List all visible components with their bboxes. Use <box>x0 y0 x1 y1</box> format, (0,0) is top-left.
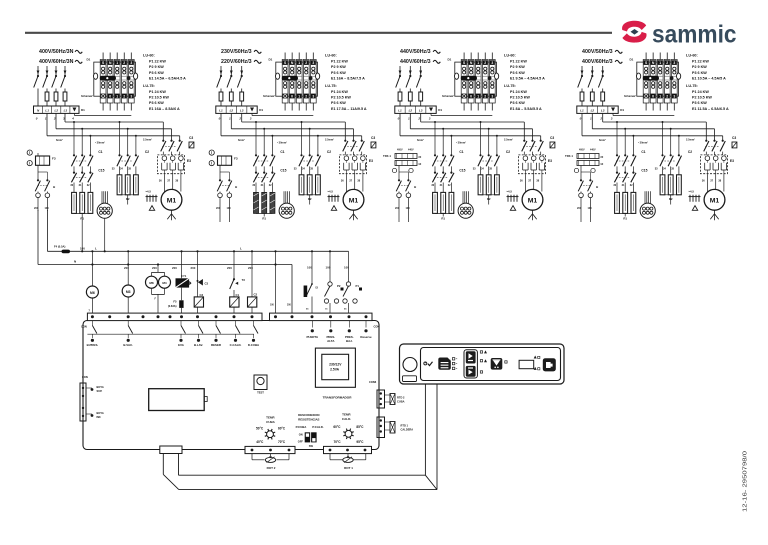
svg-text:L2: L2 <box>230 109 234 113</box>
svg-text:C2: C2 <box>327 150 331 154</box>
svg-text:C1: C1 <box>459 150 463 154</box>
svg-text:L: L <box>95 246 97 250</box>
svg-text:CON6: CON6 <box>369 380 377 384</box>
svg-text:D1: D1 <box>269 58 273 62</box>
svg-text:200: 200 <box>124 266 129 270</box>
svg-text:C2: C2 <box>506 150 510 154</box>
svg-text:1: 1 <box>477 95 479 99</box>
svg-text:LU-60:: LU-60: <box>143 54 155 58</box>
svg-text:R1: R1 <box>441 217 445 221</box>
svg-text:2.5mm²: 2.5mm² <box>504 138 513 142</box>
svg-text:P2 9 KW: P2 9 KW <box>692 65 707 69</box>
svg-text:100: 100 <box>326 266 331 270</box>
svg-text:LU-75:: LU-75: <box>325 84 337 88</box>
svg-text:2: 2 <box>305 95 307 99</box>
svg-text:sammic: sammic <box>652 20 737 48</box>
svg-text:CALD.: CALD. <box>342 417 351 421</box>
svg-text:P2 10.5 KW: P2 10.5 KW <box>331 96 351 100</box>
svg-text:100: 100 <box>344 266 349 270</box>
svg-text:2: 2 <box>666 61 668 65</box>
svg-text:100: 100 <box>406 207 411 210</box>
svg-text:Schema2: Schema2 <box>442 94 454 98</box>
svg-text:• 30mm²: • 30mm² <box>95 141 105 145</box>
svg-text:CALDERA: CALDERA <box>401 428 414 432</box>
svg-text:P2 9 KW: P2 9 KW <box>149 65 164 69</box>
svg-text:400V/60Hz/3: 400V/60Hz/3 <box>582 59 613 65</box>
svg-text:≈4.5: ≈4.5 <box>507 190 513 194</box>
svg-text:85°C: 85°C <box>356 425 364 429</box>
svg-text:F5: F5 <box>173 300 177 304</box>
svg-text:2.5VA: 2.5VA <box>330 368 340 372</box>
svg-text:220V/60Hz/3: 220V/60Hz/3 <box>221 59 252 65</box>
svg-text:C2: C2 <box>145 150 149 154</box>
svg-text:TRANSFORMADOR: TRANSFORMADOR <box>323 396 353 400</box>
svg-text:F4 (0.5A): F4 (0.5A) <box>54 245 65 249</box>
svg-text:0: 0 <box>470 95 472 99</box>
svg-text:C3: C3 <box>189 136 193 140</box>
svg-text:(0.63A): (0.63A) <box>168 304 177 308</box>
svg-text:E1 14.5A – 6.5A/4.5 A: E1 14.5A – 6.5A/4.5 A <box>149 76 186 80</box>
svg-text:≈4.5: ≈4.5 <box>328 190 334 194</box>
svg-text:D1: D1 <box>448 58 452 62</box>
svg-text:Schema2: Schema2 <box>624 94 636 98</box>
svg-text:P2 9 KW: P2 9 KW <box>510 65 525 69</box>
svg-text:C3: C3 <box>371 136 375 140</box>
svg-text:RESER: RESER <box>211 343 222 347</box>
svg-text:D1: D1 <box>81 108 85 112</box>
svg-text:3: 3 <box>312 95 314 99</box>
svg-text:P1 22 KW: P1 22 KW <box>331 60 348 64</box>
svg-text:3: 3 <box>130 61 132 65</box>
svg-text:P1 24 KW: P1 24 KW <box>331 90 348 94</box>
svg-text:C3: C3 <box>550 136 554 140</box>
svg-text:230/12V: 230/12V <box>329 363 342 367</box>
svg-text:P3 6 KW: P3 6 KW <box>331 71 346 75</box>
svg-text:50°C: 50°C <box>256 426 264 430</box>
svg-text:6mm²: 6mm² <box>56 138 63 142</box>
svg-text:1: 1 <box>116 61 118 65</box>
svg-text:2: 2 <box>123 95 125 99</box>
svg-text:C3: C3 <box>205 282 209 286</box>
svg-text:D1: D1 <box>438 108 442 112</box>
svg-text:E1 16A – 8.5A/6 A: E1 16A – 8.5A/6 A <box>149 107 180 111</box>
svg-text:L1: L1 <box>219 109 223 113</box>
svg-text:LU-75:: LU-75: <box>143 84 155 88</box>
svg-text:200: 200 <box>172 266 177 270</box>
svg-text:95°C: 95°C <box>356 440 364 444</box>
svg-text:E3: E3 <box>548 159 552 163</box>
svg-text:200: 200 <box>227 266 232 270</box>
svg-text:1: 1 <box>298 95 300 99</box>
svg-text:M8: M8 <box>149 281 154 285</box>
svg-text:2: 2 <box>484 95 486 99</box>
svg-text:E1 10.5A – 4.5A/5 A: E1 10.5A – 4.5A/5 A <box>692 76 726 80</box>
svg-text:4: 4 <box>71 117 74 121</box>
svg-text:E1 11.5A – 6.5A/6.5 A: E1 11.5A – 6.5A/6.5 A <box>692 107 729 111</box>
svg-text:2.5mm²: 2.5mm² <box>686 138 695 142</box>
svg-text:200: 200 <box>248 266 253 270</box>
svg-text:ROT 2: ROT 2 <box>267 466 276 470</box>
svg-text:6mm²: 6mm² <box>238 138 245 142</box>
svg-text:Schema2: Schema2 <box>81 94 93 98</box>
svg-text:R1: R1 <box>262 217 266 221</box>
svg-text:70°C: 70°C <box>333 440 341 444</box>
svg-text:3: 3 <box>130 95 132 99</box>
svg-text:LU-75:: LU-75: <box>504 84 516 88</box>
svg-text:D1: D1 <box>259 108 263 112</box>
svg-text:M1: M1 <box>167 198 177 205</box>
svg-text:2: 2 <box>599 117 602 121</box>
svg-text:E3: E3 <box>369 159 373 163</box>
svg-text:C1: C1 <box>98 150 102 154</box>
svg-text:P.CALD.: P.CALD. <box>312 425 323 429</box>
svg-text:12-16- 2950798/0: 12-16- 2950798/0 <box>743 451 749 512</box>
svg-text:L3: L3 <box>601 109 605 113</box>
svg-text:C1: C1 <box>280 150 284 154</box>
svg-text:C15: C15 <box>280 169 286 173</box>
svg-text:PUERTA: PUERTA <box>306 335 319 339</box>
svg-text:N: N <box>74 260 76 264</box>
svg-text:F3: F3 <box>52 157 56 161</box>
svg-text:2: 2 <box>53 117 56 121</box>
svg-text:TRF-1: TRF-1 <box>565 154 573 158</box>
svg-text:• 30mm²: • 30mm² <box>277 141 287 145</box>
svg-text:E3: E3 <box>187 159 191 163</box>
svg-text:Reserve: Reserve <box>360 335 372 339</box>
svg-text:C1: C1 <box>236 293 240 297</box>
svg-text:100: 100 <box>80 246 85 250</box>
svg-text:SUP.: SUP. <box>97 389 103 393</box>
svg-text:C1: C1 <box>641 150 645 154</box>
svg-text:L2: L2 <box>54 109 58 113</box>
svg-text:L2: L2 <box>409 109 413 113</box>
svg-text:M1: M1 <box>528 198 538 205</box>
svg-text:D1: D1 <box>630 58 634 62</box>
svg-text:2: 2 <box>666 95 668 99</box>
svg-text:T3: T3 <box>242 278 246 282</box>
svg-text:M6: M6 <box>90 291 95 295</box>
svg-text:OFF: OFF <box>298 439 304 443</box>
svg-text:C2: C2 <box>688 150 692 154</box>
svg-text:ROT 1: ROT 1 <box>344 466 353 470</box>
svg-text:P3 6 KW: P3 6 KW <box>149 101 164 105</box>
svg-text:E1 9.5A – 4.5A/4.5 A: E1 9.5A – 4.5A/4.5 A <box>510 76 545 80</box>
svg-text:L1: L1 <box>398 109 402 113</box>
svg-text:3: 3 <box>673 95 675 99</box>
svg-text:C.CALD.: C.CALD. <box>230 343 242 347</box>
svg-text:LU-75:: LU-75: <box>686 84 698 88</box>
svg-text:RESISTENCIAS: RESISTENCIAS <box>298 418 319 422</box>
svg-text:0: 0 <box>109 95 111 99</box>
svg-text:P2 10.5 KW: P2 10.5 KW <box>692 96 712 100</box>
svg-text:TRF-1: TRF-1 <box>383 154 391 158</box>
svg-text:SW: SW <box>309 444 314 448</box>
svg-text:M4: M4 <box>162 281 167 285</box>
svg-text:400V/50Hz/3N: 400V/50Hz/3N <box>39 49 74 55</box>
svg-text:440V: 440V <box>408 149 414 152</box>
svg-text:P1 24 KW: P1 24 KW <box>510 90 527 94</box>
svg-text:D1: D1 <box>620 108 624 112</box>
svg-text:200: 200 <box>152 266 157 270</box>
svg-text:• 30mm²: • 30mm² <box>456 141 466 145</box>
svg-text:P2: P2 <box>337 284 341 288</box>
svg-text:60°C: 60°C <box>333 425 341 429</box>
svg-text:400V: 400V <box>579 149 585 152</box>
svg-text:2: 2 <box>123 61 125 65</box>
svg-text:L1: L1 <box>580 109 584 113</box>
svg-text:CUBA: CUBA <box>397 400 405 404</box>
svg-text:LU-60:: LU-60: <box>325 54 337 58</box>
svg-text:60°C: 60°C <box>278 426 286 430</box>
svg-text:TEST: TEST <box>257 391 264 395</box>
svg-text:230V/50Hz/3: 230V/50Hz/3 <box>221 49 252 55</box>
svg-text:E3: E3 <box>730 159 734 163</box>
svg-text:M1: M1 <box>710 198 720 205</box>
svg-text:B.VAC.: B.VAC. <box>123 343 133 347</box>
svg-text:440V/50Hz/3: 440V/50Hz/3 <box>400 49 431 55</box>
svg-text:CON: CON <box>81 325 87 329</box>
svg-text:C15: C15 <box>459 169 465 173</box>
svg-text:Schema2: Schema2 <box>263 94 275 98</box>
svg-text:E1 16A – 8.5A/7.5 A: E1 16A – 8.5A/7.5 A <box>331 76 365 80</box>
svg-text:BAJ.: BAJ. <box>346 339 353 343</box>
svg-text:1: 1 <box>116 95 118 99</box>
svg-text:M1: M1 <box>349 198 359 205</box>
svg-text:CON: CON <box>374 325 380 329</box>
svg-text:≈4.5: ≈4.5 <box>689 190 695 194</box>
svg-text:P3 6 KW: P3 6 KW <box>149 71 164 75</box>
svg-text:BOYA: BOYA <box>97 385 104 389</box>
svg-text:1: 1 <box>477 61 479 65</box>
svg-text:3: 3 <box>673 61 675 65</box>
svg-text:P1 22 KW: P1 22 KW <box>149 60 166 64</box>
svg-text:P2 10.5 KW: P2 10.5 KW <box>510 96 530 100</box>
svg-text:RTD 1: RTD 1 <box>401 424 409 428</box>
svg-text:P3 6 KW: P3 6 KW <box>692 71 707 75</box>
svg-text:L: L <box>240 246 242 250</box>
svg-text:DESCONEXION: DESCONEXION <box>298 413 319 417</box>
svg-text:CUBA: CUBA <box>266 420 275 424</box>
svg-text:0: 0 <box>652 95 654 99</box>
svg-text:ALTA: ALTA <box>327 339 335 343</box>
svg-text:70°C: 70°C <box>278 440 286 444</box>
svg-text:2: 2 <box>417 117 420 121</box>
svg-text:2: 2 <box>305 61 307 65</box>
svg-text:P3 6 KW: P3 6 KW <box>510 101 525 105</box>
svg-text:F3: F3 <box>234 157 238 161</box>
svg-text:2: 2 <box>484 61 486 65</box>
svg-text:R1: R1 <box>623 217 627 221</box>
svg-text:C15: C15 <box>641 169 647 173</box>
svg-text:P2 10.5 KW: P2 10.5 KW <box>149 96 169 100</box>
svg-text:P3 6 KW: P3 6 KW <box>510 71 525 75</box>
svg-text:INF.: INF. <box>97 415 102 419</box>
svg-text:D1: D1 <box>87 58 91 62</box>
svg-text:L3: L3 <box>419 109 423 113</box>
svg-text:P1 22 KW: P1 22 KW <box>692 60 709 64</box>
svg-text:C3: C3 <box>732 136 736 140</box>
svg-text:RTD 2: RTD 2 <box>397 396 405 400</box>
svg-text:BOYA: BOYA <box>97 411 104 415</box>
svg-text:• 30mm²: • 30mm² <box>638 141 648 145</box>
svg-text:E1 8A – 5.5A/5.5 A: E1 8A – 5.5A/5.5 A <box>510 107 542 111</box>
svg-text:100: 100 <box>307 266 312 270</box>
svg-text:P3 6 KW: P3 6 KW <box>331 101 346 105</box>
svg-text:440V: 440V <box>590 149 596 152</box>
svg-text:D.CUBA: D.CUBA <box>248 343 260 347</box>
svg-text:LU-60:: LU-60: <box>686 54 698 58</box>
svg-text:CON: CON <box>82 375 88 379</box>
svg-text:EVA: EVA <box>178 343 185 347</box>
svg-text:400V: 400V <box>397 149 403 152</box>
svg-text:100: 100 <box>45 207 50 210</box>
svg-text:3: 3 <box>312 61 314 65</box>
svg-text:P.CUBA: P.CUBA <box>296 425 308 429</box>
svg-text:200: 200 <box>191 266 196 270</box>
svg-text:E1 17.5A – 11A/9.5 A: E1 17.5A – 11A/9.5 A <box>331 107 367 111</box>
svg-text:3: 3 <box>491 61 493 65</box>
svg-text:100: 100 <box>588 207 593 210</box>
svg-text:100: 100 <box>227 207 232 210</box>
svg-text:C3: C3 <box>200 293 204 297</box>
svg-text:6mm²: 6mm² <box>599 138 606 142</box>
svg-text:L1: L1 <box>45 109 49 113</box>
svg-text:L3: L3 <box>240 109 244 113</box>
svg-text:440V/60Hz/3: 440V/60Hz/3 <box>400 59 431 65</box>
svg-text:B.LAV.: B.LAV. <box>194 343 203 347</box>
svg-text:3: 3 <box>491 95 493 99</box>
svg-text:2.5mm²: 2.5mm² <box>143 138 152 142</box>
svg-text:1: 1 <box>298 61 300 65</box>
svg-text:0: 0 <box>291 95 293 99</box>
svg-text:P1 24 KW: P1 24 KW <box>692 90 709 94</box>
svg-text:P1 24 KW: P1 24 KW <box>149 90 166 94</box>
svg-text:40°C: 40°C <box>256 440 264 444</box>
svg-text:CY1: CY1 <box>181 274 187 278</box>
svg-text:P2 9 KW: P2 9 KW <box>331 65 346 69</box>
svg-text:P1: P1 <box>356 284 360 288</box>
svg-text:L3: L3 <box>64 109 68 113</box>
svg-text:C2: C2 <box>254 293 258 297</box>
svg-text:2: 2 <box>238 117 241 121</box>
svg-text:≈4.5: ≈4.5 <box>146 190 152 194</box>
svg-text:L2: L2 <box>591 109 595 113</box>
svg-text:P1 22 KW: P1 22 KW <box>510 60 527 64</box>
svg-text:2.5mm²: 2.5mm² <box>325 138 334 142</box>
svg-text:P3 6 KW: P3 6 KW <box>692 101 707 105</box>
svg-text:6mm²: 6mm² <box>417 138 424 142</box>
svg-text:400V/60Hz/3N: 400V/60Hz/3N <box>39 59 74 65</box>
svg-text:ON: ON <box>299 432 303 436</box>
svg-text:M3: M3 <box>126 290 131 294</box>
svg-text:1: 1 <box>659 95 661 99</box>
svg-text:1: 1 <box>659 61 661 65</box>
svg-text:C15: C15 <box>98 169 104 173</box>
svg-text:400V/50Hz/3: 400V/50Hz/3 <box>582 49 613 55</box>
svg-text:B.PRES.: B.PRES. <box>87 343 99 347</box>
svg-text:LU-60:: LU-60: <box>504 54 516 58</box>
